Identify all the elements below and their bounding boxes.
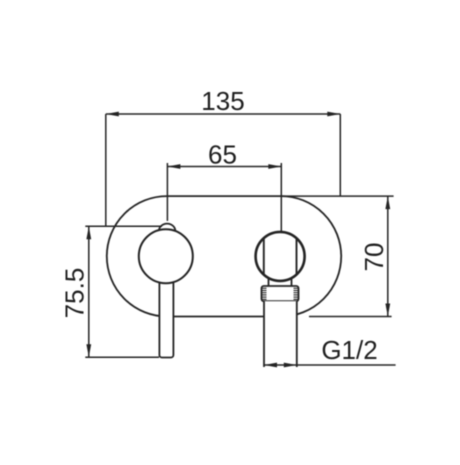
arrowhead 65 left (167, 164, 180, 169)
thread ribs left side (262, 288, 267, 299)
extension line 135 left (105, 114, 107, 226)
arrowhead 70 top (385, 196, 390, 209)
dimension line 135 (overall width) (106, 113, 340, 115)
dimension/leader line G1/2 (pipe thread) (264, 364, 396, 366)
left knob body (lever base circle) (139, 229, 193, 283)
thread ribs right side (294, 288, 299, 299)
svg-text:70: 70 (359, 243, 389, 272)
dimension line 70 (plate height) (387, 196, 389, 316)
outlet connection pipe (264, 301, 297, 367)
extension line 70 bottom (309, 316, 392, 318)
mixer lever handle (left, pointing down) (159, 275, 173, 358)
extension line 75.5 bottom (85, 356, 159, 358)
threaded G1/2 coupling nut (262, 286, 299, 301)
arrowhead 70 bottom (385, 304, 390, 317)
extension line 75.5 top (85, 225, 162, 227)
dimension line 75.5 (left height) (88, 226, 90, 357)
extension line 70 top (plate top prolonged) (281, 195, 394, 197)
extension line 65 left (166, 163, 168, 221)
lever pivot dome on top of left knob (159, 224, 175, 231)
right diverter knob (ball with side flats) (256, 232, 305, 281)
arrowhead G1/2 right (284, 363, 297, 368)
extension line 135 right (339, 114, 341, 196)
extension line 65 right (280, 163, 282, 232)
svg-text:G1/2: G1/2 (321, 335, 377, 365)
arrowhead 135 right (327, 112, 340, 117)
dimension line 65 (knob centre distance) (167, 166, 281, 168)
svg-text:135: 135 (201, 86, 244, 116)
arrowhead G1/2 left (264, 363, 277, 368)
arrowhead 135 left (106, 112, 119, 117)
svg-text:75.5: 75.5 (60, 268, 90, 319)
arrowhead 75.5 top (86, 226, 91, 239)
svg-text:65: 65 (208, 140, 237, 170)
oval wall plate (stadium escutcheon outline) (107, 196, 341, 316)
diverter valve neck (below right knob) (269, 260, 292, 287)
arrowhead 75.5 bottom (86, 344, 91, 357)
arrowhead 65 right (268, 164, 281, 169)
